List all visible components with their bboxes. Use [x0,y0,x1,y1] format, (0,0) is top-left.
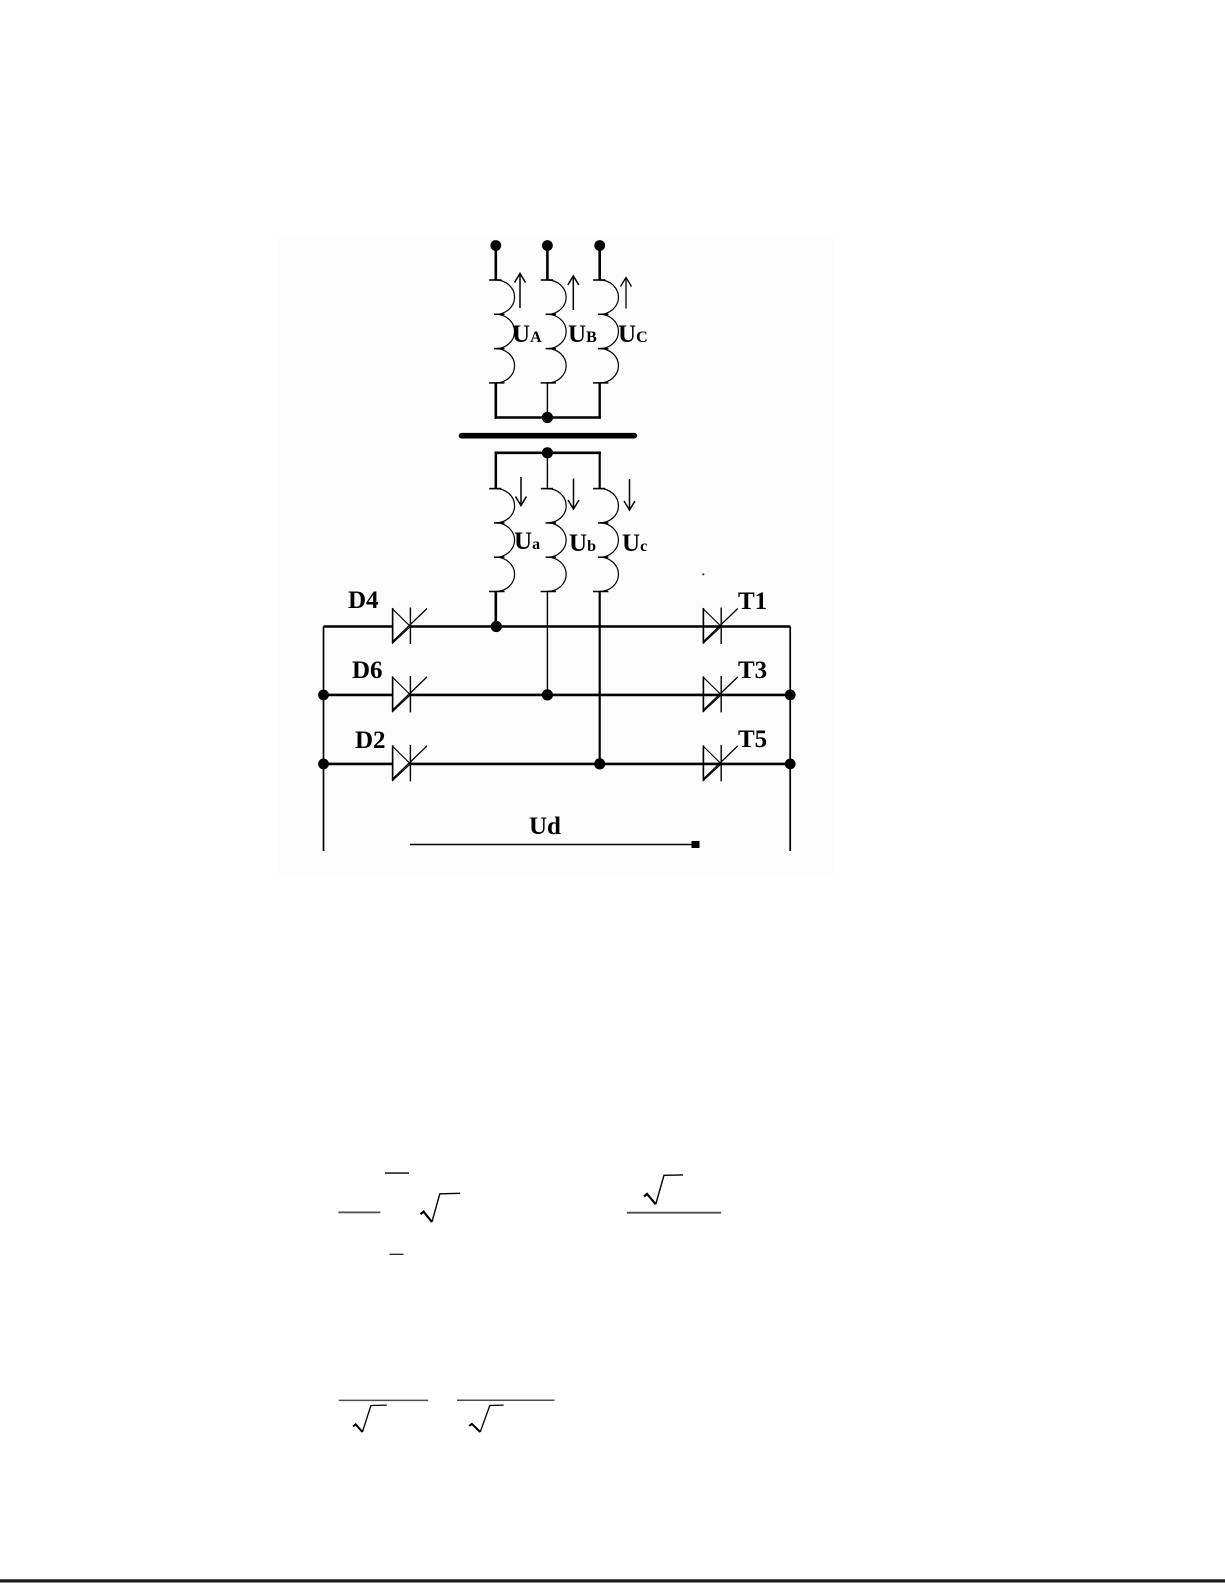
diode D4 [392,608,427,645]
junction: node a on row 1 [491,621,502,632]
wire: secondary c top drop [599,452,601,489]
junction: right bus row 3 [785,759,796,770]
formula 3 fraction bar [339,1399,429,1401]
svg-text:T1: T1 [738,588,767,615]
junction: node c on row 3 [594,758,605,769]
voltage arrow Uc (down) [624,479,635,510]
wire: phase c drop to bridge row 3 [599,592,601,764]
wire: primary A bottom stub [494,383,497,419]
primary winding UA (inductor) [489,280,515,383]
junction: primary neutral node [542,412,553,423]
bottom page rule [0,1579,1225,1582]
formula 1 fraction bar [338,1211,380,1213]
label D2 [355,727,386,754]
wire: phase b drop to bridge row 2 [546,592,548,695]
wire: primary C bottom stub [599,383,601,419]
svg-text:D6: D6 [352,657,383,684]
wire: row 1 right segment [410,625,790,628]
junction: secondary neutral node [542,447,553,458]
node A terminal dot [490,240,501,251]
formula 4 radical sign [469,1405,503,1432]
wire: right DC bus [789,627,791,852]
formula 3 radical sign [353,1405,387,1432]
wire: row 1 left segment [324,625,393,628]
wire: phase a drop to bridge row 1 [494,592,497,627]
wire: row 2 right segment [410,694,790,697]
junction: right bus row 2 [785,690,796,701]
label T1 [738,588,767,615]
wire: secondary b top drop [546,453,548,489]
wire: secondary a top drop [495,452,498,489]
label Ub [569,530,596,557]
voltage arrow UA (up) [515,274,526,309]
wire: row 2 left segment [324,694,393,697]
label Uc [622,530,647,557]
thyristor T3 [703,676,738,713]
voltage arrow Ub (down) [568,479,579,510]
wire: left DC bus [323,627,325,852]
primary winding UC (inductor) [593,280,619,383]
label D4 [348,587,379,614]
formula 2 radical sign [644,1175,683,1204]
wire: row 3 right segment [410,763,790,766]
label T5 [738,726,767,753]
svg-text:Ud: Ud [529,813,561,840]
wire: phase C terminal stem [598,246,601,281]
wire: phase A terminal stem [494,246,497,281]
transformer core bar [462,433,635,439]
secondary winding Ub (inductor) [541,489,567,592]
stray speck [702,573,704,575]
label T3 [738,657,767,684]
secondary winding Ua (inductor) [489,489,515,592]
voltage arrow UC (up) [621,278,632,309]
formula 4 fraction bar [457,1399,555,1401]
primary winding UB (inductor) [541,280,567,383]
formula 1 radical sign [421,1193,461,1222]
wire: primary B bottom stub [546,383,548,418]
node B terminal dot [542,240,553,251]
label UB [568,321,597,348]
label UC [618,321,648,348]
junction: left bus row 3 [318,759,329,770]
schematic image panel [278,236,834,875]
thyristor T1 [703,608,738,645]
svg-text:T5: T5 [738,726,767,753]
formula 1 overbar [385,1172,409,1174]
node C terminal dot [594,240,605,251]
svg-text:D2: D2 [355,727,386,754]
wire: phase B terminal stem [546,246,549,281]
wire: secondary top bus [495,451,602,454]
voltage arrow Ua (down) [516,477,527,506]
label UA [512,321,542,348]
wire: primary neutral bus [495,416,602,419]
thyristor T5 [703,745,738,782]
voltage arrow UB (up) [568,276,579,310]
diode D2 [392,745,427,782]
junction: node b on row 2 [542,689,553,700]
diode D6 [392,676,427,713]
formula 1 minus sign [390,1253,404,1255]
Ud reference arrow [410,841,700,848]
svg-text:T3: T3 [738,657,767,684]
svg-text:D4: D4 [348,587,379,614]
junction: left bus row 2 [318,690,329,701]
wire: row 3 left segment [324,763,393,766]
label Ud [529,813,561,840]
formula 2 fraction bar [627,1212,721,1214]
secondary winding Uc (inductor) [593,489,619,592]
label Ua [514,528,540,555]
label D6 [352,657,383,684]
